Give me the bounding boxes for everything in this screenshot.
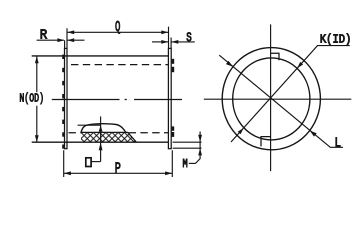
M arrows <box>198 135 202 156</box>
L diagonal dimension line <box>219 55 343 147</box>
O dim: extension line at hump top <box>78 124 101 126</box>
M leader <box>189 162 196 164</box>
svg-text:M: M <box>183 157 188 171</box>
body top edge with left extension <box>32 55 169 57</box>
top keyway notch <box>271 53 279 60</box>
weld hump outline <box>81 124 126 133</box>
R/Q extension lines above left rim <box>65 28 67 48</box>
hidden bore line bottom right segment (dashed) <box>129 132 169 134</box>
body bottom edge with left extension <box>32 141 169 143</box>
outer circle <box>222 48 320 150</box>
Q arrows <box>67 30 168 34</box>
R dim line right tail <box>67 39 84 41</box>
M dim vertical line <box>196 132 201 164</box>
right rim serration teeth <box>172 59 175 137</box>
N(OD) arrows <box>35 56 39 142</box>
P extension lines below rims <box>64 150 173 177</box>
inner circle (bore) <box>233 58 310 140</box>
hatch top boundary <box>81 132 136 141</box>
L arrows at outer circle <box>226 61 317 137</box>
svg-text:P: P <box>115 161 121 177</box>
bottom keyway notch <box>261 137 270 147</box>
centerline of side view (dash-dot) <box>52 99 182 101</box>
Q dim line <box>67 31 168 33</box>
hidden bore line top (dashed) <box>71 64 168 66</box>
O dim arrows <box>99 125 103 150</box>
K(ID) diagonal dimension line <box>231 46 350 142</box>
svg-text:Q: Q <box>115 20 120 36</box>
left rim serration teeth <box>62 55 64 149</box>
O dim vertical line <box>100 116 102 161</box>
M extension lines right of rim <box>173 142 202 148</box>
svg-text:K(ID): K(ID) <box>320 34 351 47</box>
label O (boxy letter) <box>86 158 91 167</box>
left rim (serrated flange) <box>65 48 68 148</box>
S dim line right tail <box>172 41 195 43</box>
svg-text:S: S <box>186 31 192 45</box>
S/Q extension lines above right rim <box>169 27 172 49</box>
right rim (serrated flange) <box>168 48 171 148</box>
R dim line left part <box>37 39 64 41</box>
K arrows at bore <box>238 62 303 134</box>
svg-text:L: L <box>335 135 342 151</box>
hidden bore line bottom left segment (dashed) <box>69 132 82 134</box>
S dim line left tail <box>152 41 168 43</box>
svg-text:N(OD): N(OD) <box>19 93 44 106</box>
horizontal centerline <box>204 98 351 100</box>
svg-text:R: R <box>40 29 48 44</box>
R arrows <box>57 38 74 42</box>
vertical centerline <box>270 24 272 171</box>
crosshatched band under hump <box>81 132 136 142</box>
P dim line <box>64 172 173 174</box>
O leader to label <box>91 161 100 163</box>
S arrows <box>161 40 178 44</box>
P arrows <box>64 171 172 175</box>
N(OD) dim vertical line <box>36 56 38 141</box>
